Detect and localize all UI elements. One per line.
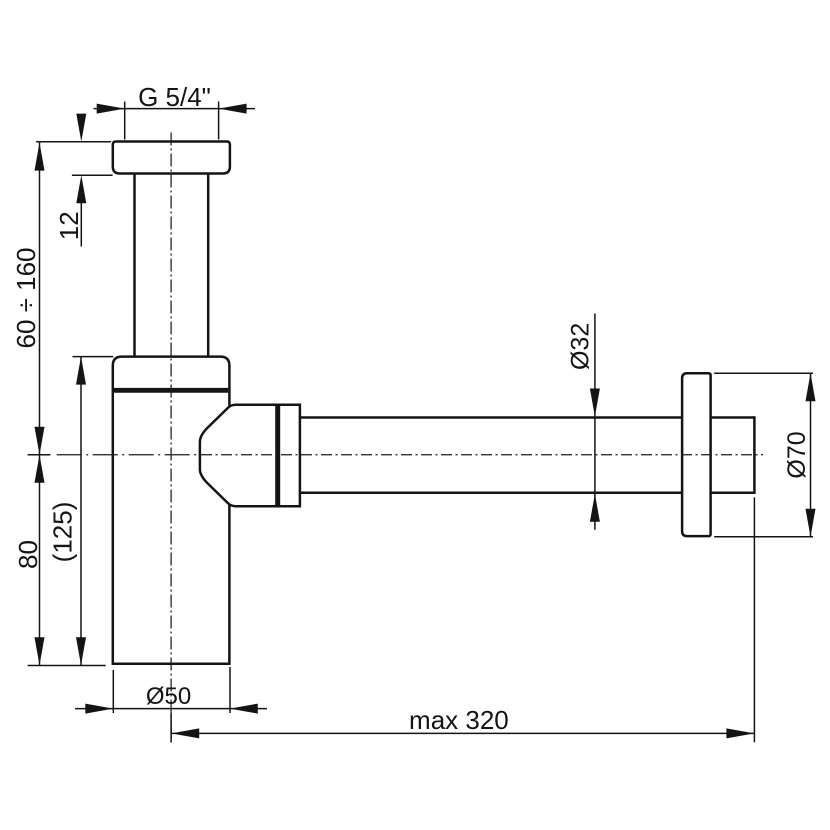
Ø50 left arrow <box>85 704 113 714</box>
Ø70 top extension line <box>714 372 813 374</box>
Ø70 bottom arrow <box>806 509 816 537</box>
Ø50 dimension line <box>75 708 267 710</box>
horizontal centerline of tube <box>57 454 200 456</box>
Ø70 dimension line <box>810 373 812 537</box>
G 5/4 dimension line <box>94 108 256 110</box>
max 320 left arrow <box>171 728 199 738</box>
Ø70 top arrow <box>806 373 816 401</box>
max 320 right extension line <box>753 497 755 742</box>
svg-text:Ø32: Ø32 <box>567 323 595 370</box>
svg-text:G 5/4": G 5/4" <box>138 82 211 112</box>
svg-text:(125): (125) <box>48 502 78 563</box>
max 320 right arrow <box>726 728 754 738</box>
(125) collar top extension line <box>73 356 114 358</box>
12 dimension tail line <box>80 203 82 247</box>
cap top extension line <box>36 141 111 143</box>
60÷160 top arrow <box>35 143 45 171</box>
Ø50 left extension line <box>112 670 114 713</box>
svg-text:Ø50: Ø50 <box>146 683 191 710</box>
Ø50 right extension line <box>229 667 231 713</box>
union nut thick joint line <box>275 406 280 505</box>
(125) top arrow <box>76 357 86 385</box>
horizontal tube bottom edge <box>299 492 684 495</box>
cap bottom extension line <box>72 174 113 176</box>
80 top arrow <box>35 455 45 483</box>
G 5/4 left extension line <box>124 102 126 140</box>
axis tick at 60÷160 / 80 junction <box>28 454 51 456</box>
svg-text:60 ÷ 160: 60 ÷ 160 <box>11 247 41 348</box>
wall flange (rosette Ø70) <box>682 373 711 536</box>
svg-text:12: 12 <box>54 211 84 240</box>
horizontal centerline of tube (right part) <box>201 454 763 456</box>
tailpipe (vertical pipe) left edge <box>133 174 136 358</box>
body bottom extension line <box>28 665 106 667</box>
Ø32 bottom arrow <box>590 494 600 522</box>
tube end section bottom edge <box>711 492 755 495</box>
12 dimension top arrow <box>76 114 86 142</box>
Ø70 bottom extension line <box>714 536 813 538</box>
80 dimension line <box>39 455 41 666</box>
max 320 dimension line <box>171 732 754 734</box>
collar joint thick line <box>114 388 228 393</box>
(125) bottom arrow <box>76 637 86 665</box>
Ø32 top arrow <box>590 389 600 417</box>
vertical centerline of trap body <box>170 133 172 743</box>
horizontal tube top edge <box>299 416 684 419</box>
80 bottom arrow <box>35 637 45 665</box>
12 dimension bottom arrow with tail <box>76 175 86 203</box>
union nut with elbow nose <box>200 405 300 506</box>
max 320 left extension (centerline foot) <box>170 713 172 743</box>
svg-text:Ø70: Ø70 <box>783 431 811 478</box>
60÷160 dimension line <box>39 143 41 455</box>
body with top collar (bottle trap cup Ø50) <box>113 357 230 664</box>
Ø32 dimension line through tube <box>594 314 596 530</box>
Ø50 right arrow <box>230 704 258 714</box>
svg-text:80: 80 <box>13 540 43 569</box>
cap nut G 5/4 <box>113 142 230 174</box>
G 5/4 right arrow <box>219 104 247 114</box>
svg-text:max 320: max 320 <box>409 705 509 735</box>
tube end section top edge <box>711 416 755 419</box>
tube end cap line <box>753 416 756 494</box>
tailpipe (vertical pipe) right edge <box>207 174 210 358</box>
G 5/4 left arrow <box>97 104 125 114</box>
(125) dimension line <box>80 357 82 666</box>
60÷160 bottom arrow <box>35 427 45 455</box>
G 5/4 right extension line <box>218 102 220 140</box>
